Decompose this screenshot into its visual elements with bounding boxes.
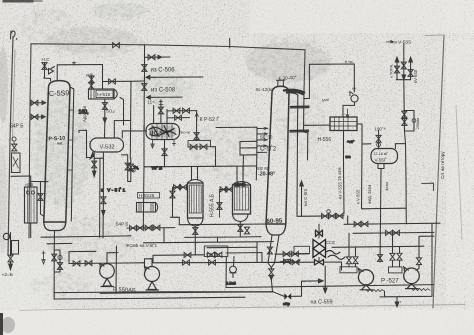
right page border [433, 35, 444, 308]
svg-text:ССЅ: ССЅ [326, 240, 335, 245]
svg-text:к V-5Ѕ5: к V-5Ѕ5 [356, 189, 361, 204]
svg-text:из C-506: из C-506 [151, 68, 176, 74]
wire: manifold above reactors [144, 165, 256, 168]
svg-text:жид. 4атм: жид. 4атм [367, 185, 372, 204]
wire: H-515 outlet down [104, 99, 106, 138]
wire: reboiler line to column [31, 181, 48, 183]
box P-5 right [294, 246, 310, 253]
valve on top header [113, 43, 120, 48]
arrows above H-556 [346, 109, 349, 118]
flange marks vapor line [290, 106, 309, 132]
svg-text:190°+: 190°+ [375, 127, 387, 132]
wire: R2 bottoms [185, 222, 261, 243]
scan edge bar bottom-left [0, 313, 3, 335]
column C-559 [44, 81, 70, 222]
hose squiggle B [412, 289, 431, 291]
wire: big valve stem [318, 224, 320, 238]
wire: H-515B bottom lines [127, 228, 175, 243]
wire: x144 continues to bottom area [142, 125, 145, 228]
column C-542 [266, 86, 289, 224]
reactor H-555B dish bottom [233, 214, 249, 222]
svg-text:٧0ʹ Б: ٧0ʹ Б [151, 165, 163, 171]
svg-text:Б4Р Б: Б4Р Б [116, 222, 129, 227]
wire: C-542 bottoms legs [268, 235, 279, 268]
scan smudges [47, 27, 137, 53]
wire: C-559 side pipe right [70, 87, 74, 221]
exchanger H-554 body [25, 187, 38, 223]
pump P-527B [404, 268, 420, 284]
scan edge bar top-left [3, 0, 34, 3]
wire: top main header [31, 44, 305, 50]
svg-text:P -527: P -527 [381, 279, 399, 285]
svg-text:нр: нр [352, 87, 356, 91]
valve right of P-527B [416, 236, 434, 270]
arrow to V-535 label [386, 40, 393, 43]
svg-text:H-5Ѕ1Б: H-5Ѕ1Б [139, 193, 154, 198]
HC vent cluster above C-559 [44, 63, 51, 82]
bold valve on y262 line [315, 260, 324, 266]
wire: vertical x103 down [100, 152, 104, 238]
instrument circle with flag [351, 95, 358, 102]
instrument circle left border [3, 233, 9, 239]
valve bracket under drum [188, 140, 211, 147]
wire: from C-508 [147, 96, 182, 98]
relief valve triangle HC [49, 67, 55, 75]
bottom page border [55, 305, 465, 310]
arrow: left drain down [9, 264, 13, 270]
wire: V-557 down to pumps [380, 169, 381, 263]
valve stub into column y103 [30, 102, 46, 104]
wire: long bottom header y293 [100, 292, 273, 294]
wire: station down to bus [405, 131, 407, 224]
wire: x226 drop [225, 258, 227, 288]
svg-text:шр ар: шр ар [257, 166, 270, 171]
wire: bottom collector right [380, 224, 432, 297]
double valve drop right of V-532 [122, 155, 131, 182]
wire: V-532 left loop [79, 130, 87, 157]
sight glass circle under R2 [230, 266, 237, 273]
separator drum C-510 [146, 124, 180, 140]
wire: riser x144 from top header [144, 45, 146, 131]
control valve CCE big X [313, 240, 326, 258]
wire: y262 line [290, 262, 342, 270]
top page border segment right [425, 34, 444, 37]
valve on riser above C-506 line [142, 65, 147, 72]
pump P-550A [100, 264, 115, 279]
arrow to P-527 [195, 113, 198, 121]
reactor H-555A [188, 183, 204, 218]
svg-text:C-5Ѓ2: C-5Ѓ2 [260, 146, 277, 153]
svg-text:H-515: H-515 [97, 92, 110, 98]
svg-text:«2=Б: «2=Б [2, 272, 13, 277]
reactor top stubs [192, 166, 244, 182]
svg-text:сЅр: сЅр [283, 301, 291, 306]
wire: P-550A discharge [107, 253, 118, 264]
reactor H-555A dish bottom [188, 218, 204, 226]
wire: V-532 top right to C-510 [122, 131, 144, 138]
svg-text:к ТОРА.: к ТОРА. [389, 64, 394, 78]
svg-text:Адор мг: Адор мг [82, 105, 87, 122]
svg-text:кV-5Ѕ5: кV-5Ѕ5 [413, 69, 418, 83]
svg-text:H-556: H-556 [318, 137, 332, 143]
wire: H-515 right cap line down [120, 98, 124, 126]
svg-text:V-532: V-532 [100, 145, 115, 151]
wire: V-532 bottom-left outlet down [93, 152, 95, 171]
control valve small X [316, 230, 323, 237]
wire: H-554 top [11, 176, 31, 187]
wire: over H-515 to riser [103, 80, 144, 83]
svg-text:+тЅ°: +тЅ° [347, 140, 355, 144]
pump P-527A [358, 270, 373, 285]
arrow bottom drain [395, 297, 399, 307]
wire: bottom line y292 [54, 291, 273, 294]
wire: x243 down to reactor R2 [242, 155, 245, 179]
svg-text:ҕмӧ: ҕмӧ [322, 98, 329, 102]
wire: from C-506 [147, 76, 204, 78]
wire: R1 bottoms [194, 226, 196, 255]
wire: V-532 top line [114, 121, 130, 139]
column C-542 bottom cone [266, 224, 286, 235]
svg-text:56°36: 56°36 [260, 135, 273, 141]
wire: x116 drop to bottom [115, 246, 118, 293]
wire: discharge route y299 [54, 297, 245, 299]
svg-text:Н.С: Н.С [42, 57, 51, 62]
svg-text:12+Б: 12+Б [235, 182, 247, 187]
left page border [8, 37, 13, 256]
valve pair lines under box [275, 253, 309, 255]
svg-text:15 атм: 15 атм [337, 168, 342, 181]
svg-text:ՍC-5٧0: ՍC-5٧0 [149, 129, 168, 137]
valve on left border chain y146 [12, 144, 17, 151]
svg-text:к V-5Ѓ1: к V-5Ѓ1 [101, 187, 127, 193]
wire: C-559 overhead to H-515 [57, 65, 102, 90]
wire: top lines to x196 drop [167, 110, 197, 112]
svg-text:нгО: нгО [86, 73, 94, 78]
corner mark "1." [11, 31, 17, 39]
wire: C-559 bottoms outlet down [53, 231, 55, 251]
svg-text:P 550АБ: P 550АБ [113, 287, 136, 294]
meter box under instrument [12, 241, 19, 255]
tick on overhead [72, 62, 75, 66]
wire: V-535 lines top right [397, 44, 411, 80]
wire: y243 short header [47, 242, 72, 244]
column C-542 top nozzle [277, 80, 285, 86]
wire: bracket out right down [211, 147, 216, 167]
wire: bottom header y158 [94, 157, 103, 159]
node tick on top header [229, 38, 231, 48]
wire: y237 header under column [41, 236, 131, 237]
wire: vapor top elbow blob [284, 90, 304, 94]
bottoms valve manifold [54, 250, 60, 299]
drum V-557 [371, 149, 398, 164]
wire: stub y57 with valve and arrow [145, 56, 171, 58]
instrument circle on border [12, 137, 16, 141]
column C-559 bottom head [44, 222, 66, 231]
svg-text:11+: 11+ [148, 100, 156, 105]
wire: drum bottom outlet [164, 140, 166, 167]
wire: feed manifold to C-542 [216, 126, 257, 128]
wire: y247 header [332, 246, 424, 247]
wire: inter-reactor drop [219, 190, 221, 218]
margin lightening patches [250, 0, 474, 33]
svg-text:Б.БсБ: Б.БсБ [226, 282, 237, 286]
reactor H-555B [233, 185, 251, 214]
svg-text:Бc+аг: Бc+аг [181, 131, 192, 135]
water inlet to H-515 [91, 75, 93, 89]
svg-text:мл.: мл. [57, 142, 63, 146]
svg-text:нз V-5Ѕ5: нз V-5Ѕ5 [338, 182, 343, 199]
svg-text:Сռ на гитору: Сռ на гитору [440, 151, 445, 179]
hose squiggle A [366, 290, 385, 292]
svg-text:К P-52 Ѓ: К P-52 Ѓ [200, 116, 220, 123]
valve with actuator to V-557 [378, 131, 380, 150]
wire: bus1 y216 [297, 215, 344, 218]
wire: bracket comb left [240, 141, 257, 155]
wire: R2 feed with valves [220, 188, 233, 190]
wire: drum top nozzles [154, 100, 167, 124]
svg-text:нго: нго [346, 155, 351, 159]
wire: V-535 pipes join down [396, 80, 410, 111]
wire: y224.5 long line under reactors [179, 223, 266, 226]
wire: H-556 left inlet [304, 124, 330, 126]
svg-text:ЎЅ,: ЎЅ, [134, 166, 139, 170]
wire: V-557 right vent [395, 144, 405, 149]
wire: R1 feed with valves [173, 186, 188, 188]
wire: y262 collector long [153, 261, 290, 264]
wire: H-554 bottom [30, 223, 32, 238]
wire: big valve down [318, 258, 320, 263]
bypass loop [404, 111, 414, 132]
wire: y242 collector [143, 242, 273, 262]
exchanger H-556 [330, 117, 357, 131]
valve stub into column y117 [30, 116, 45, 118]
svg-text:250мм: 250мм [416, 118, 420, 129]
wire: left feed riser from corner [29, 44, 31, 238]
wire: bus1 to bus2 [344, 216, 440, 224]
wire: drops to P-527A [349, 233, 356, 267]
wire: na C-5 arrow line up [301, 182, 303, 216]
svg-text:₤ тм.: ₤ тм. [345, 60, 354, 64]
heat exchanger H-515 [89, 89, 115, 99]
wire: x256 drain down [255, 157, 258, 180]
label H-515B box [138, 193, 160, 199]
wire: suction header with valves [69, 263, 145, 268]
svg-text:SL-12(вл: SL-12(вл [256, 87, 274, 92]
wire: vapor stub to instrument riser [304, 64, 354, 99]
drum C-510 internals [152, 124, 172, 139]
wire: top header corner down to C-542 vapor pipe [304, 50, 305, 92]
svg-text:V-55Ѓ: V-55Ѓ [375, 157, 387, 163]
wire: y286 header right [226, 285, 434, 288]
vent mark left of manifold [42, 251, 45, 264]
wire: left drain stack [10, 233, 12, 265]
arrow 160 outlet [103, 118, 106, 123]
valve on riser above C-508 line [142, 84, 147, 91]
svg-text:₤ 30-40°: ₤ 30-40° [278, 75, 297, 82]
svg-text:из C-508: из C-508 [151, 88, 176, 94]
vessel V-532 [90, 138, 124, 152]
wire: H-556 right outlet [357, 124, 371, 144]
wire: bus3 y233 [353, 231, 434, 234]
exchanger H-515B [137, 203, 156, 213]
wire: x362 drop to y209 header [362, 144, 407, 209]
wire: recirc corner line [69, 251, 96, 263]
nozzle ticks C-559 right [68, 110, 73, 170]
wire: box to valve area [226, 253, 290, 263]
svg-text:C-5Ѕ9: C-5Ѕ9 [49, 88, 70, 98]
svg-text:Б4Р Б: Б4Р Б [10, 124, 25, 130]
scribble under CCE [326, 251, 345, 260]
svg-text:Р-5Ѓ-мЃ: Р-5Ѓ-мЃ [206, 252, 221, 257]
svg-text:60-95: 60-95 [266, 217, 283, 225]
solid valve on bottoms line [284, 293, 291, 299]
svg-text:нз V-53Ѕ: нз V-53Ѕ [392, 40, 411, 46]
double valve station right [403, 111, 405, 132]
svg-text:на С-5ІЅ: на С-5ІЅ [303, 189, 308, 206]
wire: P-550B discharge [145, 259, 153, 268]
wire: V-557 bottom legs [378, 164, 384, 169]
svg-text:нЅБ: нЅБ [26, 182, 34, 187]
wire: drops to P-527B [393, 233, 400, 267]
svg-text:-20-98°: -20-98° [258, 172, 275, 178]
meter box on left border [12, 153, 21, 173]
wire: instrument to H-556 [343, 102, 355, 117]
wire: long vertical right of H-515 [129, 81, 132, 158]
wire: y255 line to box [153, 254, 204, 257]
svg-text:на C-559: на C-559 [311, 300, 333, 306]
wire: second vapor pipe [304, 92, 308, 160]
wire: x196 drop to bracket [196, 111, 198, 141]
wire: H-556 bottom to 15atm line [343, 131, 346, 214]
wire: C-542 vapor line right side [289, 93, 298, 217]
pump P-550B [145, 267, 160, 282]
svg-text:H-555 А,Б: H-555 А,Б [210, 193, 216, 217]
box P-5x-M [204, 246, 228, 257]
svg-text:4атм: 4атм [384, 182, 389, 191]
svg-text:ЅO₄∕: ЅO₄∕ [106, 109, 116, 114]
svg-text:ФСмБ на V-5Ѓ1: ФСмБ на V-5Ѓ1 [126, 243, 158, 248]
svg-text:12-16 мЃ: 12-16 мЃ [374, 151, 389, 156]
